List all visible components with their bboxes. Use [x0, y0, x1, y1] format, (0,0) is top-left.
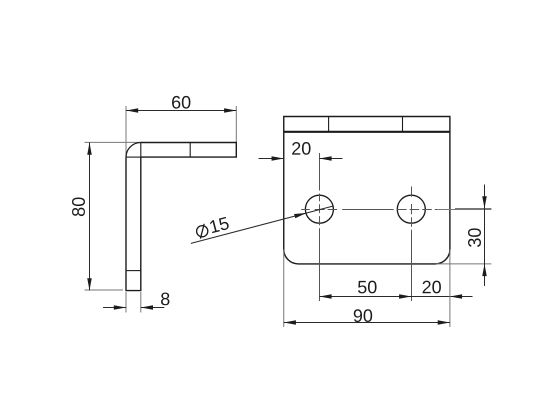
- dimension 50 arrow right: [399, 294, 411, 299]
- diameter leader line: [191, 206, 333, 243]
- front view band division left: [328, 117, 330, 132]
- dimension 90 arrow right: [438, 320, 450, 325]
- dimension 50 line: [320, 296, 412, 298]
- svg-text:90: 90: [353, 306, 373, 326]
- dimension 80 line: [89, 143, 91, 291]
- front view bend line (band bottom): [284, 131, 450, 133]
- dimension 80 arrow top: [87, 143, 92, 155]
- dimension 8 arrow left: [114, 305, 126, 310]
- dimension 8 arrow right: [141, 305, 153, 310]
- front view plate outline: [284, 117, 450, 264]
- svg-text:30: 30: [465, 228, 485, 248]
- side view tangent edge lines at fillet: [126, 143, 141, 158]
- dimension 8 line with outside tails: [103, 307, 164, 309]
- side view edge line on vertical arm: [126, 270, 141, 272]
- front view band division right: [402, 117, 404, 132]
- dimension 80 arrow bottom: [87, 278, 92, 290]
- dimension 20 bottom line: [412, 296, 450, 298]
- svg-text:8: 8: [160, 289, 170, 309]
- extension line to 30 dimension: [437, 209, 491, 211]
- svg-text:80: 80: [69, 197, 89, 217]
- side view edge line on horizontal arm: [189, 143, 191, 158]
- dimension 50 arrow left: [319, 294, 331, 299]
- hole 1 vertical centerline: [319, 153, 321, 301]
- dimension 60 arrow right: [224, 108, 236, 113]
- svg-text:20: 20: [291, 139, 311, 159]
- dimension 60 line: [126, 110, 236, 112]
- dimension 20 top line with outside tails: [259, 158, 343, 160]
- side view outer fillet arc: [126, 143, 141, 158]
- svg-text:50: 50: [357, 277, 377, 297]
- dimension 30 line: [484, 185, 486, 287]
- horizontal centerline through holes: [301, 209, 437, 211]
- hole 2 vertical centerline: [411, 187, 413, 302]
- dimension 20 bottom tail: [450, 296, 473, 298]
- svg-text:60: 60: [171, 92, 191, 112]
- dimension 60 extension lines: [126, 106, 236, 157]
- side view L-profile outline: [126, 143, 236, 291]
- svg-text:20: 20: [422, 277, 442, 297]
- dimension 90 line: [284, 322, 450, 324]
- dimension 20 top arrow left: [272, 156, 284, 161]
- dimension 80 extension lines: [85, 142, 141, 290]
- dimension 90 extension lines: [284, 250, 450, 328]
- diameter symbol slash: [200, 224, 204, 239]
- dimension 20 bottom arrow: [450, 294, 462, 299]
- dimension 30 arrow bottom: [482, 264, 487, 276]
- dimension 8 extension lines: [126, 292, 141, 313]
- dimension 20 top arrow right: [319, 156, 331, 161]
- hole 1: [305, 195, 333, 223]
- dimension 90 arrow left: [284, 320, 296, 325]
- diameter leader arrow: [294, 213, 306, 218]
- dimension 30 extension lines: [436, 209, 491, 264]
- dimension 60 arrow left: [126, 108, 138, 113]
- hole 2: [397, 195, 425, 223]
- dimension 30 arrow top: [482, 196, 487, 208]
- diameter symbol circle: [197, 226, 208, 237]
